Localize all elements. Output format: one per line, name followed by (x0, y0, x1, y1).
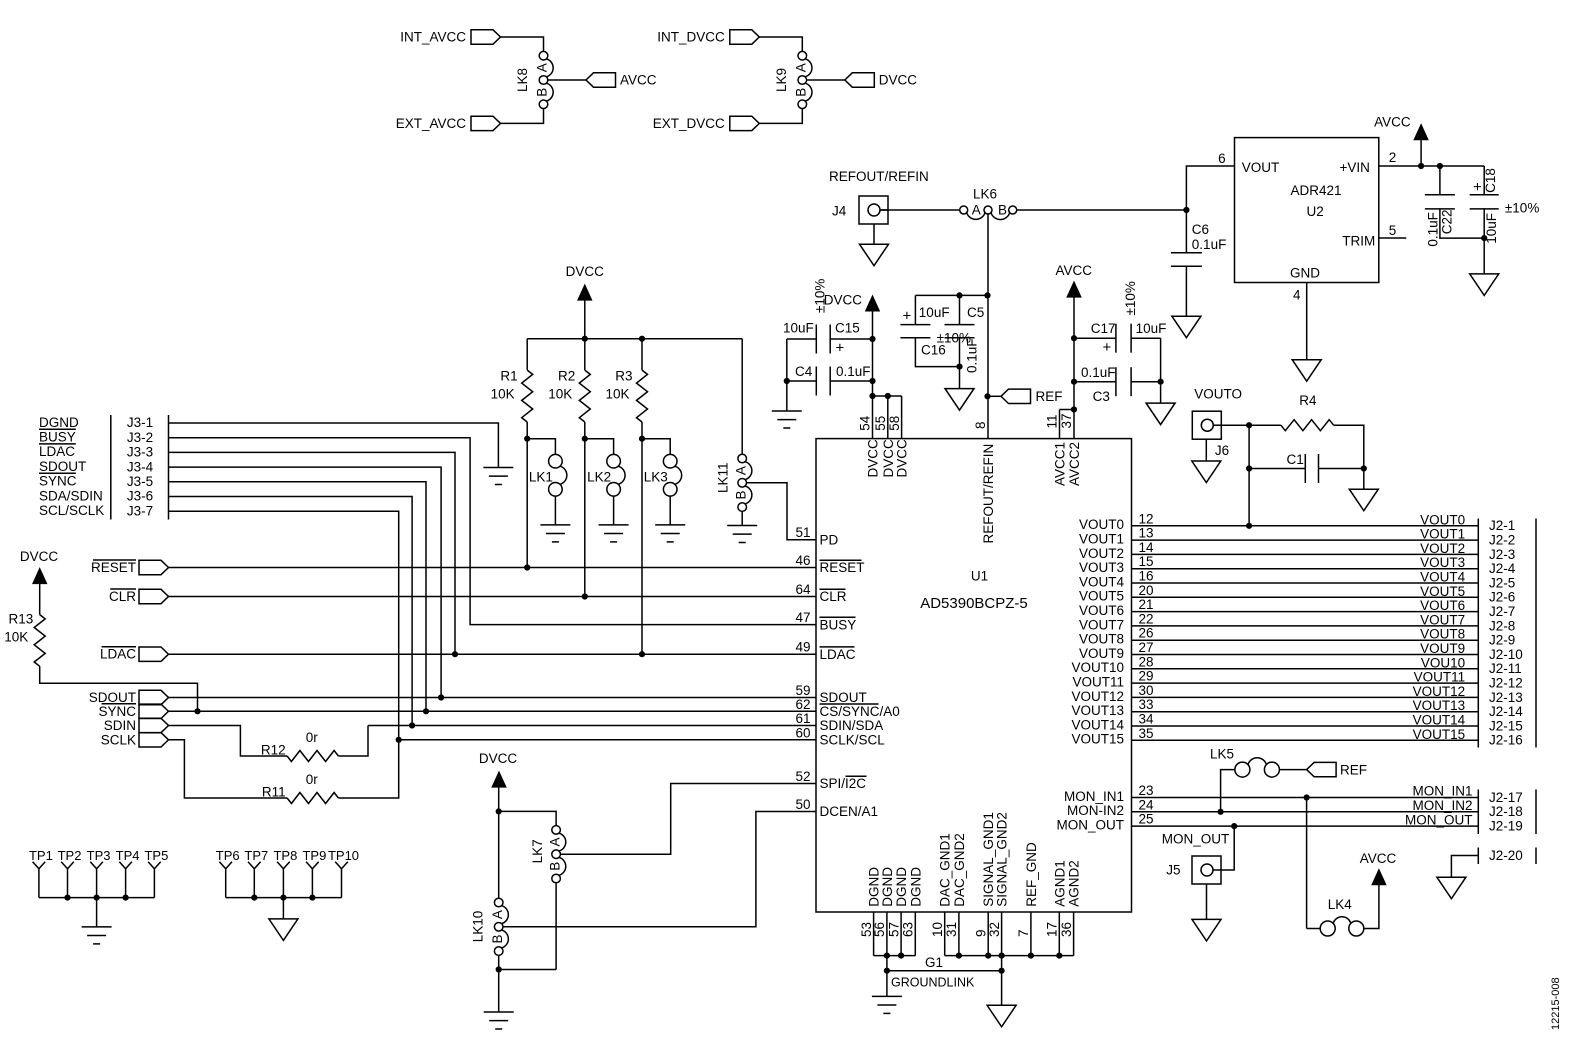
svg-text:31: 31 (944, 922, 959, 937)
svg-text:SDIN/SDA: SDIN/SDA (820, 718, 884, 733)
wire (959, 367, 961, 389)
svg-text:51: 51 (795, 525, 810, 540)
svg-text:LK10: LK10 (471, 911, 486, 943)
svg-text:VOUT: VOUT (1242, 160, 1280, 175)
junction (524, 564, 530, 570)
svg-text:J3-7: J3-7 (127, 503, 153, 518)
wire R3 to LDAC (641, 439, 643, 655)
svg-text:BUSY: BUSY (39, 430, 76, 445)
svg-text:29: 29 (1139, 669, 1154, 684)
svg-text:5: 5 (1389, 223, 1397, 238)
ground (860, 244, 889, 266)
svg-text:+: + (1103, 339, 1112, 356)
svg-text:DGND: DGND (894, 867, 909, 907)
resistor R1 10K (526, 339, 528, 370)
ground (540, 525, 570, 542)
junction (984, 393, 990, 399)
wire J3-1 to ground (169, 423, 499, 468)
svg-text:AVCC1: AVCC1 (1053, 442, 1068, 486)
ground (1470, 274, 1499, 296)
svg-text:49: 49 (795, 640, 810, 655)
svg-text:62: 62 (795, 697, 810, 712)
svg-text:LK9: LK9 (774, 68, 789, 92)
ground (1146, 403, 1175, 425)
wire R13 to SYNC (40, 666, 198, 711)
svg-text:10: 10 (930, 922, 945, 937)
wire TP bus (226, 897, 342, 899)
svg-text:RESET: RESET (91, 560, 136, 575)
svg-text:28: 28 (1139, 654, 1154, 669)
svg-text:CS/SYNC/A0: CS/SYNC/A0 (820, 704, 900, 719)
svg-text:J3-6: J3-6 (127, 489, 153, 504)
svg-text:VOUT5: VOUT5 (1420, 584, 1465, 599)
svg-text:TP7: TP7 (244, 848, 268, 863)
svg-text:0.1uF: 0.1uF (836, 364, 871, 379)
wire (1221, 770, 1235, 812)
svg-text:20: 20 (1139, 583, 1154, 598)
wire (1205, 439, 1207, 461)
svg-text:VOUT14: VOUT14 (1413, 713, 1466, 728)
svg-text:J2-13: J2-13 (1489, 690, 1523, 705)
IC U1 AD5390BCPZ-5 (816, 439, 1132, 912)
svg-text:AVCC: AVCC (1056, 263, 1093, 278)
svg-text:INT_DVCC: INT_DVCC (657, 30, 725, 45)
pin 36 AGND2 (1073, 912, 1075, 956)
wire LDAC (169, 653, 817, 655)
svg-text:LK1: LK1 (529, 469, 553, 484)
wire VOUT0 (1132, 525, 1479, 527)
svg-text:EXT_AVCC: EXT_AVCC (396, 116, 467, 131)
svg-text:J3-5: J3-5 (127, 474, 153, 489)
junction (884, 968, 890, 974)
wire (499, 811, 556, 825)
svg-text:LK7: LK7 (530, 839, 545, 863)
svg-text:SPI/I2C: SPI/I2C (820, 776, 867, 791)
junction (1304, 794, 1310, 800)
wire (584, 422, 586, 439)
wire (759, 109, 802, 123)
svg-text:J2-10: J2-10 (1489, 647, 1523, 662)
svg-text:+: + (836, 340, 845, 357)
svg-text:LK11: LK11 (715, 462, 730, 493)
jumper LK8 (539, 51, 548, 60)
wire J3-5 SYNC (169, 482, 427, 712)
svg-text:TP8: TP8 (273, 848, 297, 863)
resistor R2 10K (584, 339, 586, 370)
svg-text:J2-18: J2-18 (1489, 804, 1523, 819)
svg-text:R13: R13 (9, 612, 34, 627)
wire (1221, 424, 1249, 426)
svg-text:J2-7: J2-7 (1489, 604, 1515, 619)
wire REFOUT/REFIN (880, 209, 960, 211)
pin 10 DAC_GND1 (944, 912, 946, 956)
svg-text:J3-2: J3-2 (127, 430, 153, 445)
svg-text:0r: 0r (306, 730, 319, 745)
svg-text:MON_IN1: MON_IN1 (1412, 784, 1472, 799)
jumper LK3 (642, 439, 670, 455)
svg-text:10K: 10K (548, 387, 572, 402)
svg-text:RESET: RESET (820, 560, 865, 575)
svg-text:VOUTO: VOUTO (1194, 387, 1242, 402)
svg-text:VOUT2: VOUT2 (1079, 546, 1124, 561)
svg-text:VOUT0: VOUT0 (1079, 517, 1124, 532)
svg-text:G1: G1 (925, 955, 943, 970)
pin 31 DAC_GND2 (958, 912, 960, 956)
svg-text:26: 26 (1139, 626, 1154, 641)
ground (82, 927, 112, 944)
junction (1437, 163, 1443, 169)
svg-text:DVCC: DVCC (866, 439, 881, 478)
svg-text:REF: REF (1340, 763, 1367, 778)
svg-text:0.1uF: 0.1uF (965, 338, 980, 373)
jumper LK2 (585, 439, 614, 455)
svg-text:58: 58 (887, 416, 902, 431)
wire (886, 956, 888, 997)
svg-text:52: 52 (795, 769, 810, 784)
svg-text:LK8: LK8 (515, 68, 530, 92)
wire VOUT3 (1132, 568, 1479, 570)
ground (1349, 489, 1378, 511)
svg-text:21: 21 (1139, 597, 1154, 612)
svg-text:13: 13 (1139, 526, 1154, 541)
svg-text:AGND2: AGND2 (1067, 860, 1082, 907)
svg-text:VOUT1: VOUT1 (1079, 532, 1124, 547)
svg-text:SDIN: SDIN (104, 718, 136, 733)
svg-text:10uF: 10uF (783, 321, 814, 336)
svg-text:TP10: TP10 (328, 848, 359, 863)
svg-text:16: 16 (1139, 569, 1154, 584)
junction (582, 593, 588, 599)
connector J2 bars 17-19 (1477, 790, 1479, 835)
wire VOUT4 (1132, 582, 1479, 584)
svg-text:VOUT10: VOUT10 (1071, 660, 1124, 675)
wire TP bus (39, 897, 154, 899)
svg-text:30: 30 (1139, 683, 1154, 698)
net flag REF (1307, 762, 1337, 776)
svg-text:15: 15 (1139, 554, 1154, 569)
junction (1361, 465, 1367, 471)
wire (498, 811, 500, 898)
svg-text:U2: U2 (1307, 204, 1324, 219)
svg-text:J3-1: J3-1 (127, 415, 153, 430)
svg-text:0.1uF: 0.1uF (1426, 212, 1441, 247)
wire (1248, 425, 1250, 526)
svg-text:61: 61 (795, 711, 810, 726)
svg-text:MON-IN2: MON-IN2 (1067, 803, 1124, 818)
svg-text:B: B (733, 490, 748, 499)
svg-text:+: + (903, 308, 912, 325)
wire R2 to CLR (584, 439, 586, 597)
wire VOUT12 (1132, 696, 1479, 698)
svg-text:SYNC: SYNC (98, 704, 136, 719)
svg-text:BUSY: BUSY (820, 617, 857, 632)
svg-text:VOUT3: VOUT3 (1420, 555, 1465, 570)
capacitor C5 (959, 295, 961, 324)
svg-text:R11: R11 (262, 785, 286, 800)
svg-text:2: 2 (1389, 150, 1397, 165)
ground (484, 1012, 514, 1029)
junction (1183, 207, 1189, 213)
junction (1246, 523, 1252, 529)
wire +VIN (1379, 165, 1484, 167)
svg-text:B: B (490, 934, 505, 943)
svg-text:J6: J6 (1215, 443, 1229, 458)
wire J2-20 to ground (1451, 856, 1478, 878)
pins 54 55 58 tie (869, 393, 875, 399)
svg-text:C22: C22 (1440, 210, 1455, 235)
svg-text:SDOUT: SDOUT (89, 690, 136, 705)
capacitor C4 (787, 380, 817, 382)
ground (483, 468, 513, 485)
wire VOUT15 (1132, 739, 1479, 741)
svg-text:C3: C3 (1093, 389, 1110, 404)
svg-text:SCLK/SCL: SCLK/SCL (820, 733, 886, 748)
svg-text:TP5: TP5 (144, 848, 168, 863)
svg-text:SDOUT: SDOUT (820, 690, 867, 705)
svg-text:C15: C15 (835, 321, 860, 336)
svg-text:LK6: LK6 (973, 187, 997, 202)
wire VOUT1 (1132, 539, 1479, 541)
svg-text:LDAC: LDAC (39, 444, 75, 459)
jumper LK7 (552, 826, 561, 835)
svg-text:J4: J4 (832, 204, 847, 219)
svg-text:DAC_GND1: DAC_GND1 (938, 833, 953, 907)
wire (1160, 338, 1162, 403)
svg-text:DVCC: DVCC (895, 439, 910, 478)
svg-text:DVCC: DVCC (20, 549, 59, 564)
svg-text:56: 56 (872, 922, 887, 937)
wire SCLK flag to R11 (169, 740, 288, 798)
junction (1071, 335, 1077, 341)
junction (1218, 809, 1224, 815)
svg-text:24: 24 (1139, 797, 1155, 812)
svg-text:22: 22 (1139, 611, 1154, 626)
svg-text:17: 17 (1045, 922, 1060, 937)
capacitor C17 (1074, 337, 1116, 339)
svg-text:C6: C6 (1192, 222, 1209, 237)
svg-text:VOUT8: VOUT8 (1420, 627, 1465, 642)
svg-text:CLR: CLR (820, 589, 847, 604)
wire MON_IN1 (1132, 797, 1479, 799)
svg-text:J2-6: J2-6 (1489, 590, 1515, 605)
svg-text:VOUT13: VOUT13 (1413, 698, 1466, 713)
wire SDOUT (169, 697, 817, 699)
wire SDIN (368, 725, 816, 727)
svg-text:J3-3: J3-3 (127, 445, 153, 460)
junction (423, 708, 429, 714)
net flag REF (1001, 389, 1031, 403)
jumper LK1 (527, 439, 555, 455)
svg-text:INT_AVCC: INT_AVCC (400, 30, 466, 45)
svg-text:VOUT11: VOUT11 (1414, 670, 1466, 685)
connector J2 bars (1477, 519, 1479, 748)
svg-text:AD5390BCPZ-5: AD5390BCPZ-5 (920, 595, 1028, 612)
junction (409, 722, 415, 728)
junction (496, 966, 502, 972)
pins DGND 53 56 57 63 (873, 912, 875, 956)
capacitor C18 (1483, 166, 1485, 195)
wire (499, 969, 556, 971)
svg-text:J2-8: J2-8 (1489, 618, 1515, 633)
wire (1017, 209, 1187, 211)
svg-text:J2-17: J2-17 (1489, 790, 1523, 805)
svg-text:35: 35 (1139, 726, 1154, 741)
voltage reference U2 ADR421 (1235, 138, 1379, 283)
svg-text:ADR421: ADR421 (1291, 183, 1342, 198)
capacitor C6 (1185, 210, 1187, 253)
pins 11 37 tie (1071, 406, 1077, 412)
ground (872, 996, 902, 1013)
wire (1483, 238, 1485, 274)
wire MON_OUT (1132, 825, 1479, 827)
svg-text:VOUT0: VOUT0 (1420, 512, 1465, 527)
junction (639, 651, 645, 657)
svg-text:MON_IN1: MON_IN1 (1064, 789, 1124, 804)
resistor R12 0r (287, 751, 338, 762)
wire (741, 511, 743, 525)
svg-text:DCEN/A1: DCEN/A1 (820, 804, 879, 819)
svg-text:DGND: DGND (908, 867, 923, 907)
connector J3 bars (110, 415, 112, 520)
svg-text:C4: C4 (795, 364, 813, 379)
svg-text:J2-16: J2-16 (1489, 733, 1523, 748)
capacitor C1 (1249, 468, 1305, 470)
wire VOUT14 (1132, 725, 1479, 727)
svg-text:10K: 10K (4, 630, 28, 645)
junction (524, 436, 530, 442)
svg-text:10K: 10K (491, 387, 515, 402)
wire VOUT11 (1132, 682, 1479, 684)
svg-text:32: 32 (987, 922, 1002, 937)
svg-text:DVCC: DVCC (479, 751, 518, 766)
ground (1192, 461, 1221, 483)
svg-text:VOUT13: VOUT13 (1071, 703, 1124, 718)
ground (1437, 877, 1466, 899)
svg-text:10K: 10K (605, 387, 629, 402)
svg-text:DVCC: DVCC (881, 439, 896, 478)
svg-text:12: 12 (1139, 511, 1154, 526)
svg-text:TRIM: TRIM (1342, 234, 1375, 249)
svg-text:C17: C17 (1091, 321, 1116, 336)
wire VOUT7 (1132, 625, 1479, 627)
svg-text:VOUT8: VOUT8 (1079, 632, 1124, 647)
wire (807, 79, 845, 81)
svg-text:LDAC: LDAC (820, 647, 856, 662)
svg-text:LK3: LK3 (644, 469, 668, 484)
svg-text:14: 14 (1139, 540, 1155, 555)
wire LK10 to DCEN (503, 812, 816, 927)
svg-text:SCL/SCLK: SCL/SCLK (39, 503, 104, 518)
svg-text:10uF: 10uF (919, 305, 950, 320)
svg-text:J2-14: J2-14 (1489, 704, 1523, 719)
svg-text:VOUT6: VOUT6 (1420, 598, 1465, 613)
svg-text:60: 60 (795, 725, 810, 740)
wire (282, 898, 284, 919)
svg-text:55: 55 (873, 416, 888, 431)
ground (655, 525, 685, 542)
wire (1363, 469, 1365, 490)
junction (869, 378, 875, 384)
svg-text:R2: R2 (558, 369, 575, 384)
wire (873, 224, 875, 244)
svg-text:MON_OUT: MON_OUT (1057, 818, 1125, 833)
wire R11 riser (338, 740, 398, 798)
svg-text:57: 57 (886, 922, 901, 937)
wire analog ground tie (945, 955, 1074, 957)
svg-text:VOUT1: VOUT1 (1420, 527, 1465, 542)
svg-text:33: 33 (1139, 697, 1154, 712)
svg-text:6: 6 (1218, 151, 1226, 166)
resistor R13 10K (34, 615, 45, 667)
svg-text:A: A (794, 63, 809, 72)
wire (1307, 928, 1321, 930)
junction (984, 292, 990, 298)
wire VOUT13 (1132, 711, 1479, 713)
ground (727, 526, 757, 543)
svg-text:J5: J5 (1166, 863, 1180, 878)
capacitor C15 (787, 338, 817, 340)
svg-text:C18: C18 (1483, 168, 1498, 193)
ground (1292, 360, 1321, 382)
svg-text:MON_IN2: MON_IN2 (1412, 798, 1472, 813)
svg-text:J2-4: J2-4 (1489, 561, 1516, 576)
svg-text:37: 37 (1059, 413, 1074, 428)
svg-text:DVCC: DVCC (879, 73, 918, 88)
wire (1186, 166, 1234, 210)
wire CLR (169, 596, 817, 598)
svg-text:AVCC: AVCC (1374, 115, 1411, 130)
svg-text:46: 46 (795, 553, 810, 568)
wire (988, 395, 1002, 397)
svg-text:DAC_GND2: DAC_GND2 (952, 833, 967, 907)
svg-text:MON_OUT: MON_OUT (1162, 832, 1230, 847)
svg-text:54: 54 (858, 415, 873, 431)
wire SCLK (399, 739, 816, 741)
capacitor C3 (1074, 381, 1116, 383)
svg-text:SDOUT: SDOUT (39, 459, 86, 474)
wire (786, 339, 788, 411)
wire TRIM stub (1379, 237, 1407, 239)
wire (1306, 798, 1308, 929)
junction (956, 292, 962, 298)
svg-text:TP4: TP4 (116, 848, 140, 863)
svg-text:TP6: TP6 (216, 848, 240, 863)
svg-text:REFOUT/REFIN: REFOUT/REFIN (981, 444, 996, 544)
pin 32 SIGNAL_GND2 (1001, 912, 1003, 956)
wire net REFOUT to pin 8 (987, 214, 989, 439)
wire SDIN flag to R12 (169, 726, 288, 757)
wire VOUT9 (1132, 654, 1479, 656)
svg-text:63: 63 (901, 922, 916, 937)
svg-text:J2-2: J2-2 (1489, 533, 1515, 548)
svg-text:AVCC: AVCC (620, 73, 657, 88)
svg-text:VOUT14: VOUT14 (1071, 717, 1124, 732)
junction (639, 336, 645, 342)
svg-text:VOUT6: VOUT6 (1079, 603, 1124, 618)
svg-text:A: A (535, 63, 550, 72)
wire (1279, 769, 1306, 771)
junction (956, 364, 962, 370)
wire (498, 955, 500, 969)
svg-text:R3: R3 (615, 369, 632, 384)
resistor R4 (1249, 424, 1281, 426)
wire (498, 970, 500, 1013)
svg-text:VOUT9: VOUT9 (1420, 641, 1465, 656)
jumper LK10 (494, 898, 503, 907)
ground (1172, 316, 1201, 338)
svg-text:DGND: DGND (39, 415, 79, 430)
ground (945, 389, 974, 411)
